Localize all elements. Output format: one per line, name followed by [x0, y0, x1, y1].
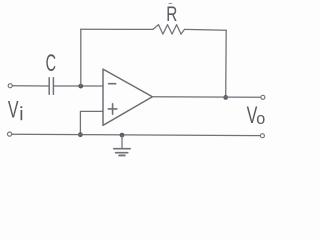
artifact macron above R [169, 2, 173, 4]
node bottom junction plus input [78, 132, 83, 137]
resistor R [153, 25, 185, 34]
bottom rail wire [12, 134, 260, 135]
wire feedback right vertical [225, 30, 228, 97]
svg-text:R: R [166, 2, 177, 26]
input terminal Vi [8, 84, 12, 88]
op-amp U1 triangle [103, 69, 152, 125]
bottom-left terminal [8, 132, 12, 136]
capacitor C plates [49, 78, 53, 94]
wire output [152, 96, 260, 99]
op-amp plus input sign [108, 104, 117, 114]
wire input to capacitor [13, 85, 49, 87]
wire feedback left vertical [80, 29, 82, 86]
wire resistor to top-right corner [185, 28, 227, 31]
bottom-right terminal [260, 134, 264, 138]
op-amp minus input sign [109, 83, 116, 85]
node output junction [223, 95, 228, 100]
svg-text:V: V [8, 98, 19, 124]
wire feedback top horizontal [81, 28, 153, 30]
svg-text:C: C [46, 50, 56, 77]
wire plus input L from ground rail [80, 111, 103, 134]
node junction capacitor/feedback [78, 84, 83, 89]
node ground junction [120, 133, 125, 138]
svg-text:o: o [256, 109, 265, 128]
wire capacitor to op-amp minus input [54, 85, 103, 87]
output terminal Vo [261, 95, 265, 99]
ground symbol [114, 135, 130, 155]
